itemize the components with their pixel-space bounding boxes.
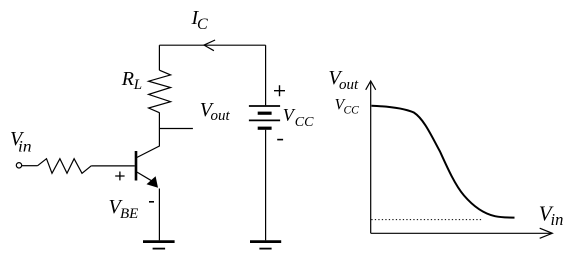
resistor RB (base series resistor) [38,159,92,174]
label RL [121,68,142,93]
label Vin (input) [10,128,32,156]
svg-text:R: R [121,68,134,90]
curve voltage transfer characteristic [372,106,515,218]
label VCC (battery) [283,105,314,130]
ground (emitter) [143,242,175,249]
wire emitter to ground [158,189,160,241]
wire input to resistor [22,165,38,167]
graph y-axis arrowhead [366,81,376,90]
graph y-axis [370,83,372,234]
plus sign VBE polarity at base [115,172,124,181]
node Vin input terminal [16,163,21,168]
svg-text:in: in [18,138,32,155]
minus sign battery negative [277,139,283,141]
minus sign VBE polarity at emitter [149,201,154,203]
wire top rail [159,44,265,46]
ground (battery) [250,242,281,249]
battery VCC short plate 2 [258,127,272,130]
label Vin (graph x-axis) [539,202,564,230]
label IC [191,7,209,33]
svg-text:out: out [339,77,359,93]
graph x-axis arrowhead [540,228,553,238]
svg-text:in: in [551,210,564,229]
battery VCC short plate 1 [258,112,272,115]
transistor Q1 emitter lead [137,172,153,181]
svg-text:L: L [133,77,142,93]
svg-text:CC: CC [344,105,360,117]
wire Vout stub [159,128,193,130]
svg-text:out: out [211,108,231,124]
label VBE [109,196,139,222]
arrow IC current direction [204,40,215,51]
battery VCC long plate 1 [249,105,280,107]
label Vout (graph y-axis) [328,67,359,93]
svg-text:BE: BE [120,206,138,222]
transistor Q1 emitter arrowhead [147,176,159,188]
wire resistor to base [91,165,134,167]
transistor Q1 base bar [135,151,138,181]
battery VCC long plate 2 [249,119,280,121]
label Vout (collector node) [200,99,231,124]
plus sign battery positive [274,85,285,96]
resistor RL [149,70,171,113]
transistor Q1 collector lead [137,113,160,158]
svg-text:CC: CC [295,115,314,130]
dotted line VOL level [371,219,483,221]
label VCC (graph level) [335,97,360,117]
wire collector top to RL [158,45,160,70]
node Vout white cross marker [193,124,200,132]
graph x-axis [371,232,552,234]
wire top rail to battery [265,45,267,105]
svg-text:C: C [197,16,208,33]
wire battery to ground [265,130,267,241]
